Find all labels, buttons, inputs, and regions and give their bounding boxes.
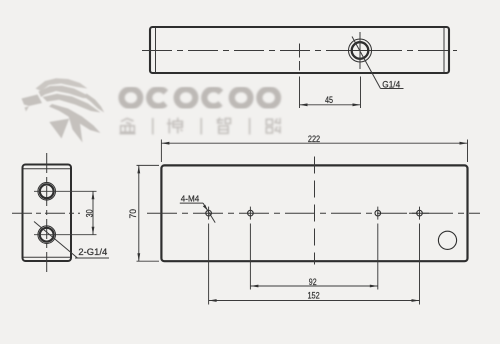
hole M4 #4 center mark + extension line [419, 207, 421, 220]
watermark logo group [22, 78, 281, 142]
hole G1/4 top view outer circle [349, 39, 372, 62]
dimension 30 line [92, 191, 94, 234]
dimension 92 line [250, 285, 377, 287]
hole G1/4 top view inner thread circle [352, 42, 369, 59]
side view vertical centerline [46, 153, 48, 272]
svg-text:222: 222 [308, 134, 321, 144]
leader 4-M4 underline [180, 202, 203, 204]
svg-text:152: 152 [307, 291, 320, 301]
dimension 45 line [300, 104, 361, 106]
svg-text:70: 70 [128, 209, 138, 219]
hole M4 #2 center mark + extension line [249, 207, 251, 220]
hole M4 #3 [375, 210, 381, 216]
char neng [266, 118, 281, 134]
main view outline [161, 165, 467, 261]
svg-text:2-G1/4: 2-G1/4 [78, 247, 107, 257]
watermark chinese characters row [120, 118, 281, 135]
char bo [167, 118, 183, 134]
hole M4 #3 center mark + extension line [377, 207, 379, 220]
side hole 2 outer circle [38, 226, 56, 244]
watermark OCOCOO letters [122, 89, 278, 106]
leader 2-G1/4 [34, 222, 78, 259]
watermark eagle mark [22, 78, 105, 142]
separator [249, 118, 251, 135]
side view horizontal centerline [12, 212, 80, 214]
svg-text:G1/4: G1/4 [382, 79, 400, 90]
hole G1/4 vertical centerline [359, 32, 361, 69]
dimension 222 extension lines [160, 140, 162, 163]
top view bar midpoint center mark [299, 44, 301, 58]
big circle right [438, 231, 456, 249]
hole M4 #2 [248, 210, 254, 216]
side hole 1 outer circle [38, 183, 56, 201]
svg-text:45: 45 [325, 95, 333, 105]
main view vertical centerline [314, 157, 316, 265]
top view bar outline [150, 27, 449, 73]
top view left chamfer line [155, 28, 157, 72]
svg-text:30: 30 [85, 209, 95, 217]
hole G1/4 horizontal centerline segment [344, 50, 376, 52]
separator [152, 118, 154, 135]
side view outline [23, 165, 72, 262]
svg-text:92: 92 [309, 277, 317, 287]
dimension 70 extension lines [137, 164, 160, 166]
main view horizontal centerline [147, 212, 480, 214]
side view bottom chamfer line [24, 256, 71, 258]
hole M4 #4 horizontal centerline segment [409, 212, 429, 214]
leader 4-M4 diagonal [203, 203, 215, 223]
hole M4 #4 [417, 210, 423, 216]
side hole 1 inner thread circle [40, 184, 54, 198]
dimension 45 extension lines [299, 61, 301, 71]
dimension 70 line [138, 165, 140, 261]
leader line G1/4 [352, 37, 381, 89]
side hole 1 horizontal centerline + ext [34, 190, 97, 192]
top view right chamfer line [443, 28, 445, 72]
side hole 2 horizontal centerline + ext [34, 234, 97, 236]
hole M4 #1 center mark + extension line [208, 207, 210, 220]
separator [200, 118, 202, 135]
side view top chamfer line [24, 168, 71, 170]
char ying [120, 119, 136, 134]
char zhi [217, 118, 231, 134]
dimension 152 line [209, 300, 420, 302]
dimension 222 line [161, 142, 467, 144]
side hole 2 inner thread circle [40, 228, 54, 242]
top view horizontal centerline [142, 50, 457, 52]
hole M4 #1 [206, 210, 212, 216]
svg-text:4-M4: 4-M4 [181, 193, 200, 203]
